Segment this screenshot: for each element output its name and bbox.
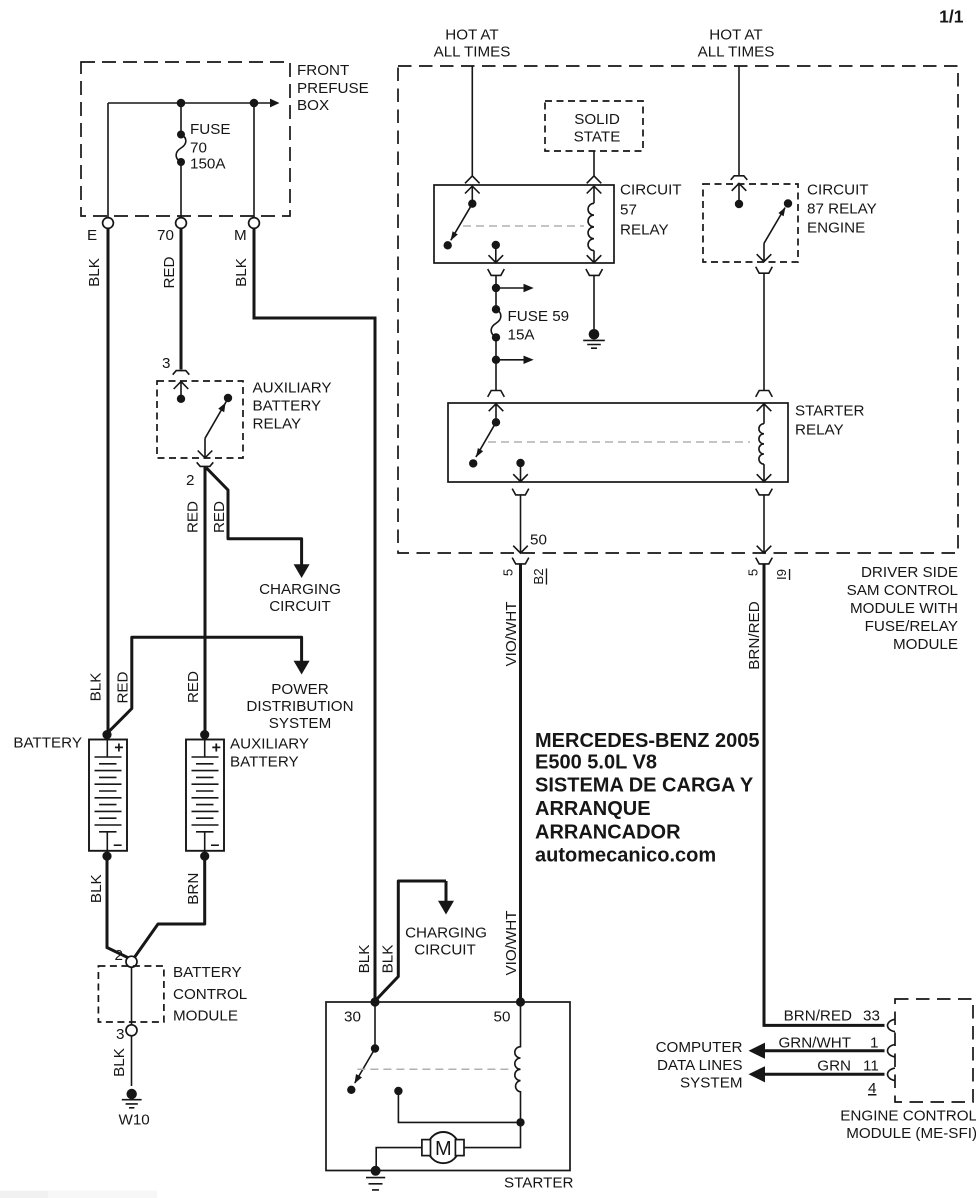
svg-text:E500 5.0L V8: E500 5.0L V8 — [535, 751, 657, 773]
wire: M terminal to starter terminal 30 — [254, 228, 375, 1000]
svg-text:57: 57 — [620, 202, 637, 219]
svg-text:AUXILIARY: AUXILIARY — [253, 380, 332, 397]
arrow into starter relay coil — [757, 404, 772, 424]
node: starter switch fixed contact — [347, 1086, 355, 1094]
svg-text:PREFUSE: PREFUSE — [297, 80, 369, 97]
svg-text:VIO/WHT: VIO/WHT — [503, 911, 520, 976]
svg-text:CHARGING: CHARGING — [259, 581, 341, 598]
svg-text:15A: 15A — [508, 327, 536, 344]
arrow out of circuit 57 — [489, 245, 504, 263]
wire: junction to motor — [464, 1122, 520, 1147]
bottom-left watermark remnant — [0, 1191, 157, 1198]
svg-text:–: – — [113, 837, 122, 854]
svg-text:4: 4 — [868, 1080, 876, 1097]
svg-text:150A: 150A — [190, 156, 226, 173]
svg-text:DISTRIBUTION: DISTRIBUTION — [246, 698, 353, 715]
branch arrow above fuse 59 — [496, 287, 524, 289]
svg-text:RELAY: RELAY — [795, 422, 844, 439]
wire: motor to ground — [376, 1148, 422, 1170]
SAM control module box (dashed) — [398, 66, 958, 553]
arrowhead to charging circuit — [294, 564, 310, 578]
connector socket at circuit 57 coil input — [587, 176, 602, 183]
svg-text:MODULE: MODULE — [893, 636, 958, 653]
svg-text:DRIVER SIDE: DRIVER SIDE — [861, 564, 958, 581]
node: starter relay output contact — [516, 459, 524, 467]
svg-text:automecanico.com: automecanico.com — [535, 845, 716, 867]
fuse 70 150A — [177, 131, 185, 139]
svg-text:DATA LINES: DATA LINES — [657, 1057, 743, 1074]
switch blade starter relay — [476, 422, 496, 457]
node: bus junction at fuse 70 — [177, 99, 186, 108]
node: circuit 87 fixed contact — [784, 199, 792, 207]
node: circuit 57 switch input — [468, 200, 476, 208]
connector socket at circuit 87 input — [731, 176, 748, 180]
ground (circuit 57 coil) — [589, 329, 600, 340]
svg-text:+: + — [212, 740, 221, 757]
svg-text:POWER: POWER — [271, 681, 328, 698]
svg-text:BOX: BOX — [297, 97, 329, 114]
svg-text:5: 5 — [501, 569, 516, 576]
svg-text:RELAY: RELAY — [620, 222, 669, 239]
svg-text:50: 50 — [530, 532, 547, 549]
connector socket at relay pin 3 — [173, 371, 190, 375]
wire VIO/WHT: SAM B2 to starter 50 — [519, 565, 522, 1001]
svg-text:BLK: BLK — [86, 258, 103, 287]
front prefuse box (dashed) — [81, 62, 290, 216]
wire: contact to motor bus — [398, 1091, 520, 1122]
svg-text:+: + — [114, 740, 123, 757]
node: starter relay fixed contact — [469, 459, 477, 467]
auxiliary battery G1/2 — [186, 740, 224, 854]
svg-text:1: 1 — [870, 1035, 878, 1052]
battery G1 — [89, 740, 127, 854]
svg-text:BATTERY: BATTERY — [253, 398, 322, 415]
svg-text:MODULE WITH: MODULE WITH — [850, 600, 958, 617]
svg-text:I9: I9 — [774, 569, 789, 580]
node: relay input contact — [177, 395, 185, 403]
arrow into starter relay switch — [489, 404, 504, 420]
svg-text:BRN/RED: BRN/RED — [784, 1007, 852, 1024]
node: circuit 57 NC contact — [444, 241, 452, 249]
svg-text:87 RELAY: 87 RELAY — [807, 201, 877, 218]
connector socket below circuit 57 output — [488, 269, 505, 275]
svg-text:SYSTEM: SYSTEM — [680, 1075, 742, 1092]
svg-text:BLK: BLK — [380, 945, 397, 974]
svg-text:BLK: BLK — [356, 945, 373, 974]
node: branch below fuse 59 — [492, 356, 500, 364]
wire GRN: ECM pin 11 to data lines — [763, 1073, 885, 1076]
terminal 70 — [176, 218, 187, 229]
svg-text:STATE: STATE — [574, 129, 621, 146]
node: starter relay switch input — [492, 418, 500, 426]
wire: hot feed to circuit 87 relay — [738, 66, 740, 175]
wire: battery negative to battery control module — [107, 858, 128, 958]
svg-text:M: M — [435, 1138, 452, 1160]
svg-text:–: – — [211, 837, 220, 854]
svg-text:BRN/RED: BRN/RED — [746, 601, 763, 669]
svg-text:SISTEMA DE CARGA Y: SISTEMA DE CARGA Y — [535, 775, 754, 797]
svg-text:3: 3 — [162, 355, 170, 372]
ground W10 — [127, 1089, 137, 1099]
node: aux battery positive — [200, 730, 209, 739]
connector socket B2 — [512, 558, 529, 564]
node: relay fixed contact — [224, 394, 232, 402]
arrow into circuit 87 — [732, 183, 747, 202]
svg-text:CONTROL: CONTROL — [173, 986, 247, 1003]
wire GRN/WHT: ECM pin 1 to data lines — [763, 1049, 885, 1052]
connector socket below starter relay coil — [756, 489, 773, 495]
svg-text:GRN: GRN — [817, 1058, 851, 1075]
connector socket below circuit 87 — [756, 267, 773, 273]
svg-text:FUSE: FUSE — [190, 121, 231, 138]
svg-text:70: 70 — [157, 227, 174, 244]
wire: E leg inside prefuse — [107, 103, 109, 218]
svg-text:FRONT: FRONT — [297, 62, 349, 79]
arrow at SAM exit B2 — [513, 546, 528, 553]
svg-text:RED: RED — [185, 501, 202, 533]
svg-text:CIRCUIT: CIRCUIT — [807, 182, 869, 199]
svg-text:50: 50 — [494, 1009, 511, 1026]
wire: starter relay coil to SAM edge — [763, 495, 765, 553]
svg-text:30: 30 — [344, 1009, 361, 1026]
wire: battery positive to power distribution — [107, 637, 302, 733]
wire: starter relay output to SAM edge — [520, 495, 522, 553]
svg-text:3: 3 — [116, 1026, 124, 1043]
arrow from charging circuit — [445, 881, 448, 901]
arrow out of starter relay coil — [757, 464, 772, 482]
mechanical link starter relay (grey dashed) — [488, 441, 750, 443]
svg-text:1/1: 1/1 — [939, 7, 964, 27]
svg-text:ARRANQUE: ARRANQUE — [535, 798, 651, 820]
svg-text:MODULE: MODULE — [173, 1008, 238, 1025]
node: branch above fuse 59 — [492, 284, 500, 292]
branch arrow below fuse 59 — [496, 359, 524, 361]
svg-text:33: 33 — [863, 1007, 880, 1024]
switch blade circuit 87 — [764, 208, 785, 244]
circuit 87 relay box (dashed) — [703, 184, 798, 262]
svg-text:VIO/WHT: VIO/WHT — [503, 602, 520, 667]
svg-text:MODULE (ME-SFI): MODULE (ME-SFI) — [846, 1125, 976, 1142]
starter box — [326, 1002, 570, 1171]
connector socket at circuit 57 relay input — [465, 176, 480, 183]
svg-text:5: 5 — [746, 569, 761, 576]
node: starter motor contact — [394, 1087, 402, 1095]
svg-text:RED: RED — [185, 671, 202, 703]
svg-text:B2: B2 — [531, 568, 546, 584]
wire: hot feed to circuit 57 relay — [471, 66, 473, 176]
pin socket 11 — [888, 1068, 896, 1080]
switch blade aux battery relay — [205, 402, 226, 439]
wire: relay pin 2 branch to charging circuit — [206, 468, 301, 565]
svg-text:FUSE/RELAY: FUSE/RELAY — [865, 618, 958, 635]
svg-text:RED: RED — [161, 256, 178, 288]
terminal M — [249, 218, 260, 229]
node: starter terminal 30 — [370, 997, 379, 1006]
svg-text:ENGINE: ENGINE — [807, 220, 865, 237]
arrow out of starter relay — [513, 463, 528, 482]
starter solenoid switch feed — [374, 1002, 376, 1046]
ground (starter) — [371, 1166, 381, 1176]
wire: circuit 57 output to fuse 59 — [495, 276, 497, 310]
svg-text:BATTERY: BATTERY — [13, 735, 82, 752]
arrow out of circuit 57 coil — [587, 251, 602, 263]
coil starter relay — [759, 424, 764, 464]
svg-text:GRN/WHT: GRN/WHT — [778, 1035, 851, 1052]
pin socket 1 — [888, 1045, 896, 1057]
svg-text:M: M — [234, 227, 247, 244]
svg-text:BLK: BLK — [88, 874, 105, 903]
starter relay box — [448, 403, 788, 482]
wire: coil to ground — [593, 276, 595, 329]
svg-text:COMPUTER: COMPUTER — [656, 1039, 743, 1056]
node: solenoid/motor junction — [516, 1118, 524, 1126]
circuit 57 relay box — [434, 185, 614, 263]
node: battery negative — [102, 852, 111, 861]
svg-text:ALL TIMES: ALL TIMES — [698, 44, 775, 61]
wire: fuse 59 to starter relay — [495, 337, 497, 390]
svg-text:FUSE 59: FUSE 59 — [508, 308, 570, 325]
wire: fuse 70 leg lower — [180, 162, 182, 218]
arrowhead to power distribution system — [294, 661, 310, 675]
node: circuit 87 input contact — [735, 200, 743, 208]
connector socket at relay pin 2 — [197, 462, 214, 466]
svg-text:BLK: BLK — [233, 258, 250, 287]
switch blade starter — [355, 1049, 375, 1084]
switch blade circuit 57 — [451, 204, 473, 241]
wire: relay pin 2 to aux battery positive — [204, 467, 207, 731]
node: bus junction at M leg — [250, 99, 259, 108]
svg-text:RELAY: RELAY — [253, 416, 302, 433]
node: circuit 57 output contact — [492, 241, 500, 249]
arrowhead prefuse bus — [270, 99, 280, 108]
svg-text:AUXILIARY: AUXILIARY — [230, 736, 309, 753]
wire: aux battery negative to battery control module — [135, 858, 205, 957]
arrow at SAM exit I9 — [757, 546, 772, 553]
svg-text:CIRCUIT: CIRCUIT — [620, 182, 682, 199]
svg-text:BATTERY: BATTERY — [173, 964, 242, 981]
svg-text:HOT AT: HOT AT — [445, 27, 498, 44]
engine control module box (dashed) — [895, 999, 973, 1102]
svg-text:ARRANCADOR: ARRANCADOR — [535, 821, 681, 843]
terminal E — [103, 218, 114, 229]
svg-text:CIRCUIT: CIRCUIT — [269, 598, 331, 615]
connector socket at starter relay input — [488, 391, 505, 397]
svg-text:MERCEDES-BENZ 2005: MERCEDES-BENZ 2005 — [535, 730, 760, 752]
mechanical link circuit 57 (grey dashed) — [463, 225, 584, 227]
svg-text:BLK: BLK — [111, 1048, 128, 1077]
coil circuit 57 relay — [588, 203, 594, 250]
svg-text:W10: W10 — [119, 1112, 150, 1129]
fuse 59 15A — [492, 305, 500, 313]
wire: 70 terminal to aux battery relay pin 3 — [180, 228, 183, 369]
wire: solid state to circuit 57 relay coil — [593, 151, 595, 176]
wire: circuit 87 to starter relay coil — [763, 274, 765, 391]
wire: battery control module to ground W10 — [131, 1036, 133, 1086]
node: aux battery negative — [200, 852, 209, 861]
svg-text:RED: RED — [211, 501, 228, 533]
solenoid coil (starter) — [515, 1002, 521, 1122]
mechanical link (grey dashed) — [357, 1068, 509, 1070]
arrow into relay pin 3 — [174, 382, 189, 398]
svg-text:SAM CONTROL: SAM CONTROL — [847, 582, 958, 599]
svg-text:BRN: BRN — [185, 873, 202, 905]
svg-text:11: 11 — [863, 1058, 879, 1075]
connector socket at starter relay coil input — [756, 391, 773, 397]
battery control module box (dashed) — [98, 966, 163, 1022]
connector socket below starter relay output — [512, 489, 529, 495]
wire: prefuse bus — [108, 102, 270, 104]
wire through battery control module — [131, 967, 133, 1025]
pin socket 33 — [888, 1019, 896, 1031]
arrow out of circuit 87 — [757, 243, 772, 261]
node: starter terminal 50 — [516, 997, 525, 1006]
arrow out of relay pin 2 — [198, 438, 213, 458]
connector socket below circuit 57 coil — [586, 269, 603, 275]
svg-text:SYSTEM: SYSTEM — [269, 715, 331, 732]
solid state box (dashed) — [545, 101, 643, 151]
svg-text:E: E — [87, 227, 97, 244]
wire: fuse 70 leg upper — [180, 103, 182, 134]
terminal 2 battery control module — [126, 956, 137, 967]
wire: M leg inside prefuse — [253, 103, 255, 218]
svg-text:ENGINE CONTROL: ENGINE CONTROL — [840, 1108, 976, 1125]
svg-text:CHARGING: CHARGING — [405, 925, 487, 942]
terminal 3 battery control module — [126, 1025, 137, 1036]
svg-text:HOT AT: HOT AT — [709, 27, 762, 44]
svg-text:CIRCUIT: CIRCUIT — [414, 942, 476, 959]
starter motor M — [428, 1132, 459, 1163]
connector socket I9 — [756, 558, 773, 564]
svg-text:STARTER: STARTER — [795, 403, 865, 420]
svg-text:BATTERY: BATTERY — [230, 754, 299, 771]
svg-text:2: 2 — [186, 472, 194, 489]
arrow into circuit 57 coil — [587, 186, 602, 203]
svg-text:RED: RED — [115, 671, 132, 703]
wire BRN/RED: SAM I9 to ECM pin 33 — [764, 565, 885, 1026]
svg-text:70: 70 — [190, 140, 207, 157]
svg-text:BLK: BLK — [88, 673, 105, 702]
auxiliary battery relay box (dashed) — [157, 381, 243, 458]
svg-text:STARTER: STARTER — [504, 1175, 574, 1192]
node: battery positive — [102, 730, 111, 739]
svg-text:2: 2 — [115, 947, 123, 964]
svg-text:ALL TIMES: ALL TIMES — [434, 44, 511, 61]
wire: charging circuit to starter terminal 30 — [375, 881, 446, 1001]
svg-text:SOLID: SOLID — [574, 111, 620, 128]
wire: E terminal to battery positive — [107, 228, 110, 731]
arrow into circuit 57 switch — [465, 186, 480, 201]
